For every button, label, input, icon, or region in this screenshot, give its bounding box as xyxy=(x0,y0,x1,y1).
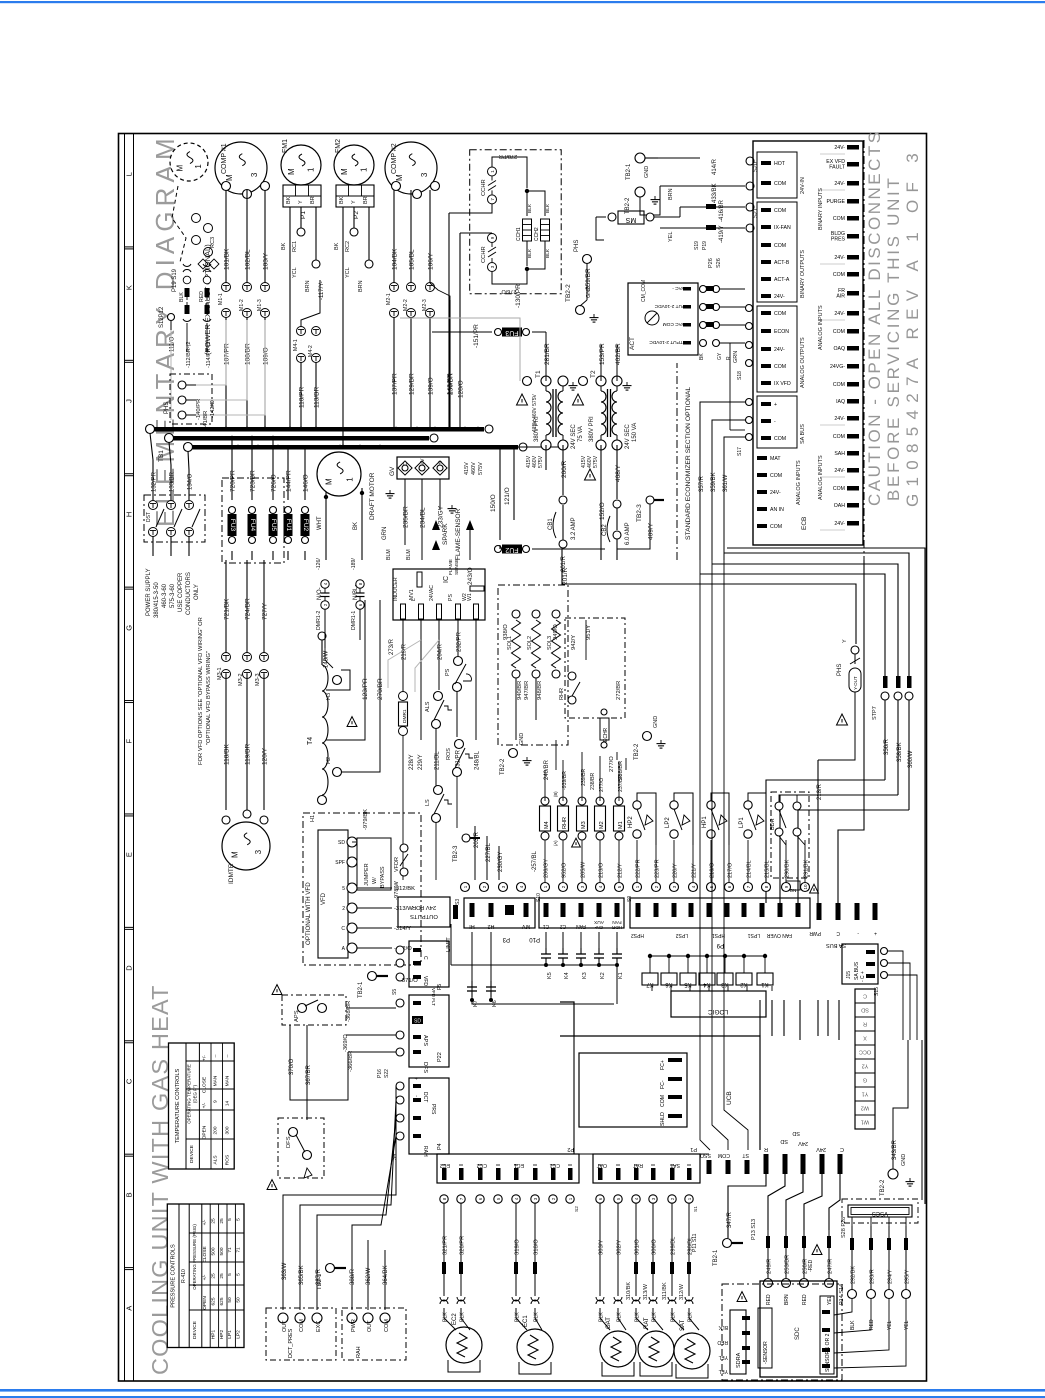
svg-text:BR: BR xyxy=(363,196,369,204)
svg-text:723/BR: 723/BR xyxy=(250,470,257,492)
svg-text:APS: APS xyxy=(294,1010,300,1022)
svg-text:M: M xyxy=(324,478,333,485)
svg-text:DMR1-2: DMR1-2 xyxy=(316,611,322,630)
svg-text:Y: Y xyxy=(842,639,848,643)
svg-text:K4: K4 xyxy=(564,972,570,979)
svg-text:24V-: 24V- xyxy=(774,347,785,353)
svg-text:121/O: 121/O xyxy=(504,487,511,505)
svg-text:M: M xyxy=(231,851,240,858)
svg-text:YCL: YCL xyxy=(345,267,351,278)
svg-text:M2-1: M2-1 xyxy=(386,293,392,305)
svg-text:CN-: CN- xyxy=(594,924,603,930)
svg-text:RAT: RAT xyxy=(632,1162,643,1168)
svg-text:CCHR: CCHR xyxy=(481,179,487,196)
svg-text:YEL: YEL xyxy=(718,1368,728,1374)
svg-text:VSCS: VSCS xyxy=(872,1210,888,1216)
svg-text:K2: K2 xyxy=(600,972,606,979)
svg-text:+/-: +/- xyxy=(202,1219,208,1225)
svg-text:YEL: YEL xyxy=(718,1354,728,1360)
svg-text:BLM: BLM xyxy=(406,549,412,560)
svg-text:RC1: RC1 xyxy=(292,241,298,252)
svg-text:B: B xyxy=(125,1192,134,1197)
svg-text:300: 300 xyxy=(224,1126,230,1134)
svg-text:COM: COM xyxy=(774,181,786,187)
svg-text:CCH2: CCH2 xyxy=(534,227,540,241)
svg-text:SHLD: SHLD xyxy=(660,1112,666,1126)
svg-text:388/R: 388/R xyxy=(350,1268,356,1285)
svg-text:721/BK: 721/BK xyxy=(224,598,231,620)
svg-text:STP7: STP7 xyxy=(872,706,878,720)
svg-text:BLK: BLK xyxy=(179,292,185,302)
svg-text:H1: H1 xyxy=(310,815,316,822)
svg-text:D: D xyxy=(125,965,134,971)
svg-text:M: M xyxy=(340,168,349,175)
svg-text:-142/O: -142/O xyxy=(210,400,216,418)
svg-text:500: 500 xyxy=(210,1247,216,1255)
svg-text:ANALOG OUTPUTS: ANALOG OUTPUTS xyxy=(800,337,806,388)
svg-text:PRS: PRS xyxy=(430,1104,436,1115)
svg-text:GRN: GRN xyxy=(733,351,739,363)
svg-text:BRN: BRN xyxy=(668,188,674,200)
svg-text:3: 3 xyxy=(250,172,259,177)
svg-text:LP2: LP2 xyxy=(236,1330,242,1339)
svg-text:COM: COM xyxy=(833,329,845,335)
svg-text:COM: COM xyxy=(833,434,845,440)
svg-text:BINARY INPUTS: BINARY INPUTS xyxy=(818,188,824,230)
svg-text:24V-IN: 24V-IN xyxy=(800,177,806,194)
svg-text:VFD: VFD xyxy=(422,976,428,986)
svg-text:K5: K5 xyxy=(684,981,692,987)
svg-text:K1: K1 xyxy=(618,972,624,979)
svg-text:OPERATING TEMPERATURE: OPERATING TEMPERATURE xyxy=(187,1064,192,1124)
svg-text:R-410: R-410 xyxy=(181,1269,187,1283)
svg-text:LPS2: LPS2 xyxy=(676,932,688,938)
svg-text:223/PR: 223/PR xyxy=(655,859,661,878)
svg-text:CC2: CC2 xyxy=(477,1162,487,1168)
svg-text:SD: SD xyxy=(792,1130,800,1136)
svg-text:PWR: PWR xyxy=(809,930,821,936)
svg-text:SAT: SAT xyxy=(669,1162,680,1168)
svg-text:71: 71 xyxy=(236,1247,242,1253)
svg-text:PHS: PHS xyxy=(574,240,580,252)
svg-text:OAT: OAT xyxy=(596,1162,607,1168)
svg-text:625: 625 xyxy=(219,1297,225,1305)
svg-text:415V: 415V xyxy=(464,462,470,475)
svg-text:C: C xyxy=(341,926,345,932)
svg-text:BYPASS: BYPASS xyxy=(380,866,386,888)
svg-text:RC2: RC2 xyxy=(345,241,351,252)
svg-text:150 VA: 150 VA xyxy=(632,423,638,442)
svg-text:S2: S2 xyxy=(574,1206,580,1212)
svg-text:IX VFD: IX VFD xyxy=(774,381,791,387)
svg-text:S3: S3 xyxy=(455,899,461,905)
svg-text:SPARK: SPARK xyxy=(442,523,449,545)
svg-text:MAT: MAT xyxy=(770,456,781,462)
svg-text:RHR: RHR xyxy=(562,817,568,829)
svg-text:LP1: LP1 xyxy=(227,1330,233,1339)
svg-text:MS: MS xyxy=(625,216,636,223)
svg-text:575V: 575V xyxy=(478,462,484,475)
svg-text:214/BL: 214/BL xyxy=(747,860,753,878)
svg-text:ECB: ECB xyxy=(801,517,808,530)
svg-text:362/W: 362/W xyxy=(366,1267,372,1285)
svg-text:222/PR: 222/PR xyxy=(636,859,642,878)
svg-text:150/O: 150/O xyxy=(490,494,497,512)
svg-text:290/BK: 290/BK xyxy=(785,859,791,878)
svg-text:DFS: DFS xyxy=(286,1136,292,1148)
svg-text:24VAC: 24VAC xyxy=(429,585,435,601)
svg-text:200/R: 200/R xyxy=(561,460,568,478)
svg-text:L: L xyxy=(125,172,134,176)
svg-text:FU3: FU3 xyxy=(505,329,518,336)
svg-text:BLM: BLM xyxy=(386,549,392,560)
svg-text:318/O: 318/O xyxy=(534,1239,540,1255)
svg-text:BLK: BLK xyxy=(545,203,551,213)
svg-text:SAH: SAH xyxy=(834,451,845,457)
svg-text:DMR1-1: DMR1-1 xyxy=(351,611,357,630)
svg-text:365/BK: 365/BK xyxy=(299,1265,305,1285)
svg-text:108/BR: 108/BR xyxy=(245,343,252,365)
svg-text:216/O: 216/O xyxy=(710,862,716,878)
svg-text:G1085427A REV A 1 OF 3: G1085427A REV A 1 OF 3 xyxy=(903,146,922,507)
svg-text:310/BK: 310/BK xyxy=(626,1282,632,1300)
svg-text:24V-: 24V- xyxy=(834,145,845,151)
svg-text:50: 50 xyxy=(227,1297,233,1303)
svg-text:24V-: 24V- xyxy=(834,468,845,474)
svg-text:103/Y: 103/Y xyxy=(263,252,270,270)
svg-text:SD: SD xyxy=(414,1019,421,1025)
svg-text:118/BK: 118/BK xyxy=(224,743,231,765)
svg-text:3: 3 xyxy=(420,172,429,177)
svg-text:M: M xyxy=(225,174,234,181)
svg-text:300/O: 300/O xyxy=(652,1239,658,1255)
svg-text:BK: BK xyxy=(286,196,292,204)
svg-text:343/BR: 343/BR xyxy=(892,1139,898,1160)
svg-text:25: 25 xyxy=(210,1218,216,1224)
svg-text:J15: J15 xyxy=(846,971,852,979)
svg-text:104/BK: 104/BK xyxy=(392,248,399,270)
svg-text:295/Y: 295/Y xyxy=(905,1269,911,1284)
svg-text:SDC: SDC xyxy=(795,1327,801,1340)
svg-text:GND: GND xyxy=(519,733,525,745)
svg-text:K7: K7 xyxy=(646,981,654,987)
svg-text:+/-: +/- xyxy=(201,1055,207,1061)
svg-text:P22: P22 xyxy=(437,1052,443,1062)
svg-text:YEL: YEL xyxy=(668,232,674,242)
svg-text:K5: K5 xyxy=(547,972,553,979)
svg-text:M3-1: M3-1 xyxy=(217,667,223,680)
svg-text:ACT-A: ACT-A xyxy=(774,277,790,283)
svg-text:BK: BK xyxy=(699,353,705,360)
svg-text:361/W: 361/W xyxy=(723,474,729,492)
svg-text:HPS2: HPS2 xyxy=(631,932,644,938)
svg-text:EC1: EC1 xyxy=(523,1315,529,1327)
svg-text:71: 71 xyxy=(227,1247,233,1253)
svg-text:JUMPER: JUMPER xyxy=(364,863,370,886)
svg-text:ACT: ACT xyxy=(629,337,636,350)
svg-text:200: 200 xyxy=(213,1126,219,1134)
svg-text:COM: COM xyxy=(384,1319,390,1332)
svg-text:321/PR: 321/PR xyxy=(443,1236,449,1255)
svg-text:K2: K2 xyxy=(740,981,748,987)
svg-text:SD: SD xyxy=(338,840,345,846)
svg-text:RED: RED xyxy=(766,1294,772,1305)
svg-text:--: -- xyxy=(214,1054,219,1058)
svg-text:247/R: 247/R xyxy=(828,1259,834,1274)
svg-text:CLOSE: CLOSE xyxy=(201,1077,207,1093)
svg-text:LP1: LP1 xyxy=(739,817,745,828)
svg-text:TB2-1: TB2-1 xyxy=(713,1249,719,1266)
svg-text:(A): (A) xyxy=(553,840,558,846)
svg-text:356/R: 356/R xyxy=(884,738,890,755)
svg-text:R: R xyxy=(764,1146,768,1152)
svg-text:HP2: HP2 xyxy=(219,1330,225,1340)
svg-text:TB2-3: TB2-3 xyxy=(636,504,643,522)
svg-text:Y-OUT: Y-OUT xyxy=(853,676,858,690)
svg-text:RC3: RC3 xyxy=(210,237,216,248)
svg-text:500: 500 xyxy=(219,1247,225,1255)
svg-text:SSO: SSO xyxy=(700,1152,711,1158)
svg-text:GV: GV xyxy=(389,466,396,476)
svg-text:TB2-1: TB2-1 xyxy=(317,1273,323,1290)
svg-text:DRAFT MOTOR: DRAFT MOTOR xyxy=(369,472,376,520)
svg-text:ROS: ROS xyxy=(224,1155,230,1165)
svg-text:-979/BK: -979/BK xyxy=(363,809,369,830)
svg-text:COM: COM xyxy=(718,1152,730,1158)
svg-text:FAN OVER: FAN OVER xyxy=(766,932,792,938)
svg-text:FAN: FAN xyxy=(576,923,586,929)
svg-text:OPEN: OPEN xyxy=(202,1296,208,1310)
svg-text:625: 625 xyxy=(210,1297,216,1305)
svg-text:OUT: OUT xyxy=(367,1320,373,1332)
svg-text:M2-2: M2-2 xyxy=(403,299,409,311)
svg-text:24V FOR: 24V FOR xyxy=(412,904,436,910)
svg-text:S1: S1 xyxy=(693,1206,699,1212)
svg-text:HP1: HP1 xyxy=(210,1330,216,1340)
svg-text:PHS: PHS xyxy=(837,664,843,676)
svg-text:367/BR: 367/BR xyxy=(306,1064,312,1085)
svg-text:120/Y: 120/Y xyxy=(262,747,269,765)
svg-text:238/BR: 238/BR xyxy=(618,761,624,780)
svg-text:1: 1 xyxy=(194,164,203,169)
svg-text:IC: IC xyxy=(443,576,450,583)
svg-text:5: 5 xyxy=(236,1273,242,1276)
svg-text:-: - xyxy=(774,419,776,425)
svg-text:C: C xyxy=(863,993,867,999)
svg-text:ALS: ALS xyxy=(425,701,431,712)
svg-text:-416/BR: -416/BR xyxy=(719,199,725,222)
svg-text:TB2-1: TB2-1 xyxy=(358,981,364,998)
svg-text:AN IN: AN IN xyxy=(770,507,784,513)
svg-text:+/-: +/- xyxy=(201,1102,207,1108)
svg-text:COM: COM xyxy=(774,243,786,249)
svg-text:CCHR: CCHR xyxy=(481,246,487,263)
svg-text:OUTPUTS: OUTPUTS xyxy=(410,913,438,919)
svg-text:W1: W1 xyxy=(861,1119,869,1125)
svg-text:GY: GY xyxy=(717,352,723,360)
svg-text:109/O: 109/O xyxy=(263,347,270,365)
svg-text:P5: P5 xyxy=(437,984,443,990)
svg-text:HDR: HDR xyxy=(611,924,622,930)
svg-text:P26: P26 xyxy=(708,258,714,268)
svg-text:720/PR: 720/PR xyxy=(230,470,237,492)
svg-text:303/Y: 303/Y xyxy=(599,1240,605,1255)
svg-text:YEL: YEL xyxy=(904,1320,910,1330)
svg-text:BLK: BLK xyxy=(671,1312,677,1322)
svg-text:IDMTR: IDMTR xyxy=(228,863,235,884)
svg-text:FU5: FU5 xyxy=(270,519,277,532)
svg-text:S5: S5 xyxy=(392,989,398,995)
svg-text:24V: 24V xyxy=(798,1140,808,1146)
svg-text:M: M xyxy=(175,165,184,172)
svg-text:BK: BK xyxy=(281,242,287,250)
svg-text:OAH: OAH xyxy=(834,503,845,509)
svg-text:G: G xyxy=(863,1077,867,1083)
svg-text:-151/PR: -151/PR xyxy=(473,324,480,348)
svg-text:+: + xyxy=(414,1077,420,1080)
svg-text:14: 14 xyxy=(224,1101,230,1107)
svg-text:FU3: FU3 xyxy=(229,519,236,532)
svg-text:460-3-60: 460-3-60 xyxy=(162,583,168,608)
svg-text:VFD FLT: VFD FLT xyxy=(431,988,436,1006)
svg-text:E: E xyxy=(125,852,134,857)
svg-text:M3-3: M3-3 xyxy=(255,673,261,686)
svg-text:294/Y: 294/Y xyxy=(888,1269,894,1284)
svg-text:COM: COM xyxy=(833,486,845,492)
svg-text:L: L xyxy=(411,598,417,601)
svg-text:277/O: 277/O xyxy=(599,778,605,792)
svg-text:EXC: EXC xyxy=(316,1321,322,1332)
svg-text:T1: T1 xyxy=(535,370,542,378)
svg-text:106/Y: 106/Y xyxy=(428,252,435,270)
svg-text:-189/: -189/ xyxy=(351,558,357,570)
svg-text:144/PR: 144/PR xyxy=(286,470,293,492)
svg-text:S20: S20 xyxy=(753,162,759,172)
svg-text:HP2: HP2 xyxy=(628,816,634,828)
svg-text:PS: PS xyxy=(445,668,451,676)
svg-text:P1: P1 xyxy=(690,1146,697,1152)
svg-text:+: + xyxy=(874,930,877,936)
svg-text:ANALOG INPUTS: ANALOG INPUTS xyxy=(818,455,824,500)
svg-text:P9: P9 xyxy=(716,942,724,948)
svg-text:SOL2: SOL2 xyxy=(527,636,533,650)
svg-text:134/O: 134/O xyxy=(188,473,194,490)
svg-text:24V-: 24V- xyxy=(834,181,845,187)
svg-text:CCH1: CCH1 xyxy=(516,227,522,241)
svg-text:25: 25 xyxy=(219,1273,225,1279)
svg-text:POWER SUPPLY: POWER SUPPLY xyxy=(146,568,152,616)
svg-text:248/BL: 248/BL xyxy=(475,750,481,770)
svg-text:BLK: BLK xyxy=(850,1320,856,1330)
svg-text:575-3-60: 575-3-60 xyxy=(170,583,176,608)
svg-text:SA BUS: SA BUS xyxy=(800,424,806,444)
svg-text:ANALOG INPUTS: ANALOG INPUTS xyxy=(796,460,802,505)
svg-text:GND: GND xyxy=(586,286,592,298)
svg-text:COM: COM xyxy=(770,524,782,530)
svg-text:DEVICE: DEVICE xyxy=(189,1145,195,1163)
svg-text:COM: COM xyxy=(774,364,786,370)
svg-text:EC2: EC2 xyxy=(452,1313,458,1325)
svg-text:949/O: 949/O xyxy=(553,624,559,640)
svg-text:YEL: YEL xyxy=(887,1320,893,1330)
svg-text:947/BR: 947/BR xyxy=(524,681,530,700)
svg-text:DCT: DCT xyxy=(422,1092,428,1102)
svg-text:T4: T4 xyxy=(307,737,314,745)
svg-text:K3: K3 xyxy=(721,981,729,987)
svg-text:2: 2 xyxy=(342,906,345,912)
svg-text:110/PR: 110/PR xyxy=(299,386,306,408)
svg-text:ECON: ECON xyxy=(774,329,789,335)
svg-text:ECHR: ECHR xyxy=(603,727,609,742)
svg-text:P2: P2 xyxy=(567,1146,574,1152)
svg-text:K4: K4 xyxy=(703,981,711,987)
svg-text:M2: M2 xyxy=(599,821,605,829)
svg-text:204/R: 204/R xyxy=(438,643,444,660)
svg-text:724/BR: 724/BR xyxy=(245,598,252,620)
svg-text:M: M xyxy=(287,168,296,175)
svg-text:FM2: FM2 xyxy=(335,139,342,153)
svg-text:113/BR: 113/BR xyxy=(314,386,321,408)
svg-text:101/BK: 101/BK xyxy=(224,248,231,270)
svg-text:SENSE: SENSE xyxy=(454,559,460,575)
svg-text:- C +: - C + xyxy=(860,971,866,982)
svg-text:BRN: BRN xyxy=(305,280,311,292)
svg-text:ANALOG INPUTS: ANALOG INPUTS xyxy=(818,305,824,350)
svg-text:951/Y: 951/Y xyxy=(586,625,592,640)
svg-text:212/Y: 212/Y xyxy=(618,863,624,878)
svg-text:SD: SD xyxy=(780,1138,788,1144)
svg-text:RED: RED xyxy=(869,1319,875,1330)
svg-text:BK: BK xyxy=(334,242,340,250)
svg-text:SPF: SPF xyxy=(335,860,345,866)
svg-text:ROS: ROS xyxy=(446,748,452,760)
svg-text:139/O: 139/O xyxy=(428,377,435,395)
svg-text:TB2-2: TB2-2 xyxy=(634,743,640,760)
svg-text:24V-: 24V- xyxy=(834,311,845,317)
svg-text:COM: COM xyxy=(774,208,786,214)
svg-text:INDUCER: INDUCER xyxy=(393,577,399,601)
svg-text:-126/: -126/ xyxy=(316,558,322,570)
svg-text:--: -- xyxy=(225,1054,230,1058)
svg-text:N/O-: N/O- xyxy=(317,587,323,600)
svg-text:281/BR: 281/BR xyxy=(544,343,551,365)
svg-text:320/PR: 320/PR xyxy=(460,1236,466,1255)
svg-text:-939/BR: -939/BR xyxy=(562,771,568,790)
svg-text:380/415-3-50: 380/415-3-50 xyxy=(154,582,160,618)
svg-text:PS: PS xyxy=(448,594,454,601)
svg-text:137/PR: 137/PR xyxy=(392,373,399,395)
svg-text:-368/BR: -368/BR xyxy=(346,1001,352,1022)
svg-text:SA BUS: SA BUS xyxy=(826,942,846,948)
svg-text:50: 50 xyxy=(236,1297,242,1303)
svg-text:J: J xyxy=(125,399,134,403)
svg-text:BINARY OUTPUTS: BINARY OUTPUTS xyxy=(800,250,806,298)
svg-text:273/R: 273/R xyxy=(389,638,395,655)
svg-text:940/BR: 940/BR xyxy=(517,681,523,700)
svg-text:P19: P19 xyxy=(702,241,708,250)
svg-text:235/BR: 235/BR xyxy=(403,506,410,528)
svg-text:SDRA: SDRA xyxy=(736,1352,742,1368)
svg-text:LS: LS xyxy=(425,799,431,806)
svg-text:364/BK: 364/BK xyxy=(383,1265,389,1285)
svg-text:1: 1 xyxy=(346,477,355,482)
svg-text:BLK: BLK xyxy=(515,1312,521,1322)
svg-text:M1: M1 xyxy=(618,821,624,829)
svg-text:HPS1: HPS1 xyxy=(712,932,725,938)
svg-text:-313/W: -313/W xyxy=(394,906,413,912)
svg-text:P3: P3 xyxy=(502,936,510,942)
svg-text:COM: COM xyxy=(299,1319,305,1332)
